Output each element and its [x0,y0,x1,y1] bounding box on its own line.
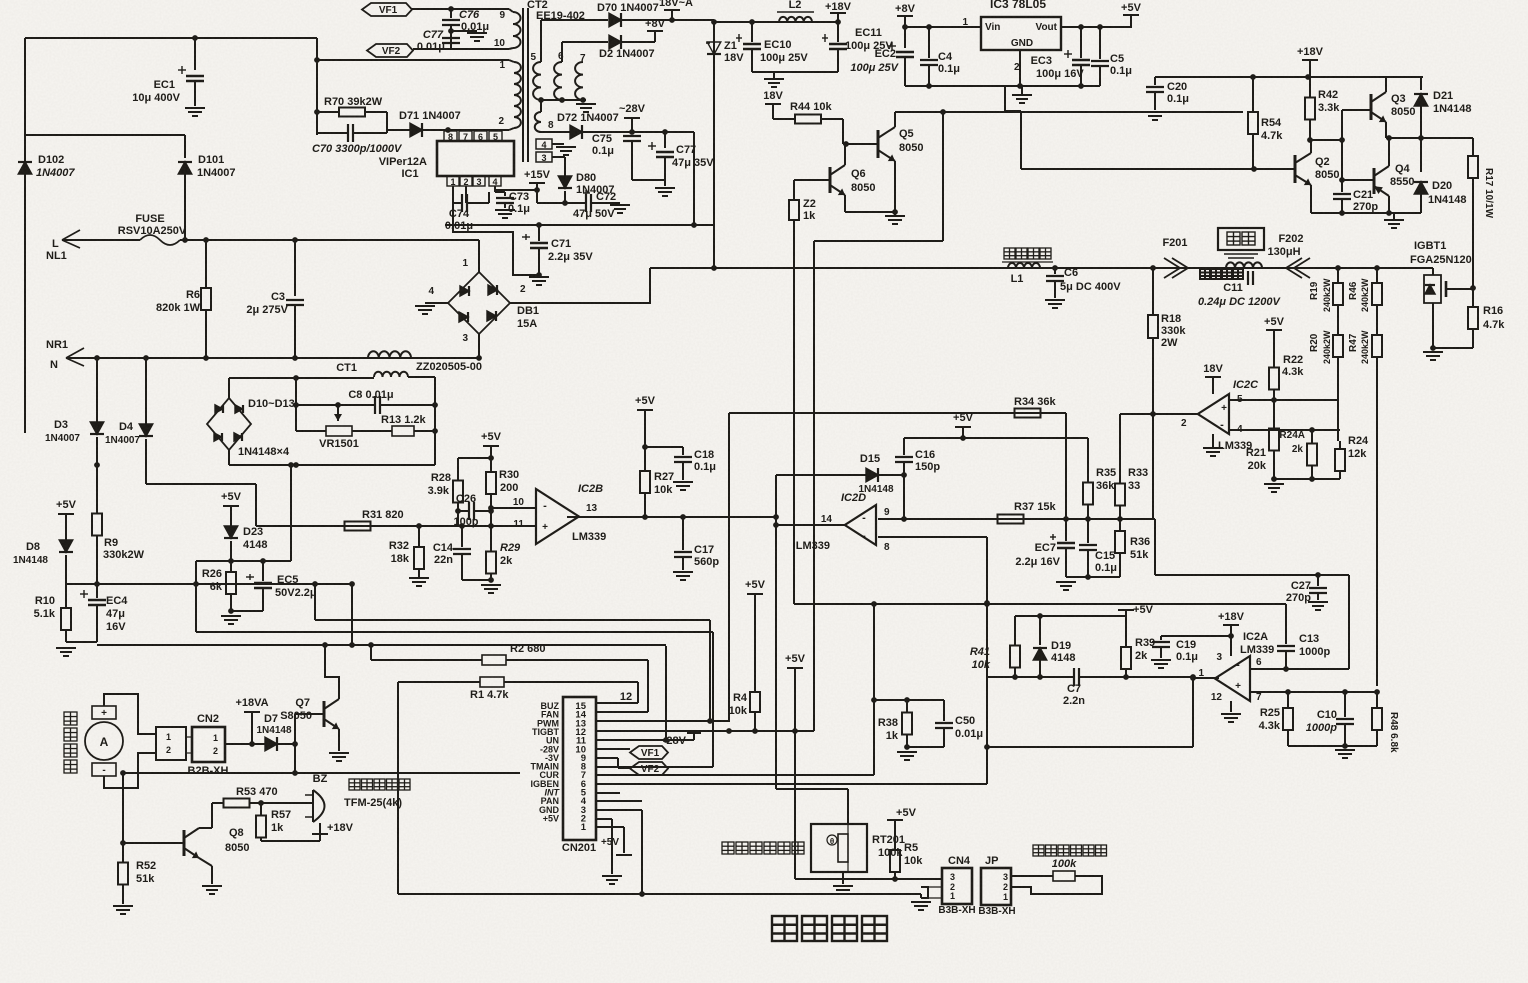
ground R29 [481,584,501,586]
wire pin13 PWM [596,720,729,722]
net pill VF2 bottom [630,762,668,775]
wire pin9 to VF2 [596,757,618,759]
wire IC1 pin2 down [465,186,467,203]
capacitor C13 [1285,604,1287,644]
wire R38/C50 top rail [907,699,944,701]
wire ~28V drop [693,132,695,226]
wire x352 down [351,584,353,646]
ground R10/EC4 [56,647,76,649]
CT2 winding 5 [533,62,541,100]
wire pin9 node y519 [878,518,1155,520]
ground C72 [610,204,630,206]
wire main HV line y268 [650,267,1433,269]
capacitor C77b [664,132,666,148]
wire Q8 emitter [199,858,212,866]
wire x987 down [986,537,988,784]
wire bridge bottom [228,450,230,465]
wire R34 line y413 [729,412,1066,414]
wire to Q7 base [294,714,296,744]
diode D70 [540,20,542,62]
wire D2 from winding 6 [561,42,563,62]
resistor R6 [205,240,207,288]
wire C19 to +18V pin3 [1161,635,1231,637]
capacitor C50 [943,700,945,721]
resistor R37 [955,518,998,520]
wire VF1 to CT2 pin9 [412,8,509,10]
resistor R46 [1376,268,1378,283]
connector CN2 left half [156,727,186,760]
wire C76/C77 mid to gnd [451,30,477,32]
wire Q8 collector [199,827,212,829]
wire R5 rail [795,878,942,880]
wire x814 long vertical [813,241,815,731]
wire left border vertical [24,38,26,433]
wire D4 to stair [146,483,256,485]
diode D20 [1420,138,1422,172]
diode D72 [541,131,570,133]
wire D101/D102 top [25,134,185,136]
wire R16 bottom [1433,347,1473,349]
resistor R24A [1311,430,1313,444]
ground EC10 [764,78,784,80]
wire Q3 emitter down [1385,122,1387,138]
capacitor EC7 [1065,519,1067,541]
transistor Q3 [1370,94,1373,120]
fan motor 风扇电机 [64,712,77,725]
diode D3 [96,358,98,422]
wire Q4 collector up [1388,138,1390,166]
mains L / NL1 arrow [62,230,80,248]
wire stair y620 [315,619,710,621]
capacitor C70 [317,132,348,134]
resistor R2 [371,659,482,661]
wire drop to IC2A pin6 [1348,575,1350,669]
resistor R22 [1273,357,1275,368]
ground R32 [409,577,429,579]
wire +18V rail y77 [1155,76,1423,78]
wire EC10/EC11 bottom [752,71,838,73]
resistor R24 [1339,441,1341,449]
capacitor C7 [1073,668,1075,686]
wire bottom bus y894 [398,893,921,895]
ground C6 [1045,299,1065,301]
capacitor C19 [1160,636,1162,640]
wire Q4 emitter down [1388,196,1390,213]
wire CN2 pin1 out [225,743,266,745]
diode D102 [24,135,26,158]
ground C71 [529,276,549,278]
wire pin3 [552,156,565,158]
wire x371 drop [370,645,372,660]
wire pin3 PAN [596,809,642,811]
wire 5/6/7 commons [541,99,586,101]
resistor R53 [212,802,224,804]
wire x729 long vertical [728,413,730,722]
wire DB1 AC top [478,240,480,272]
diode D8 [59,540,73,552]
ground R38 [897,751,917,753]
wire C74 right up [488,192,490,203]
wire pin4 to gnd [552,143,564,145]
wire x196 down [195,561,197,632]
ground Q8 [202,885,222,887]
choke label [1004,248,1015,259]
wire R70 right [386,112,388,133]
ground CN4 [911,901,931,903]
ground C73 [495,209,515,211]
resistor R41 [1014,616,1016,636]
CT2 pin3 box [536,152,552,162]
ground C18 [673,481,693,483]
wire R21/R24 bottoms [1274,478,1340,480]
capacitor C11 [1247,271,1249,285]
capacitor C10 [1344,692,1346,717]
ground R26 [221,615,241,617]
inductor L1 [1008,263,1040,268]
wire pin2 GND [596,818,612,820]
wire over to x814 [814,240,943,242]
diode D7 [265,737,277,751]
wire DB1 pin4 [425,302,448,304]
capacitor EC3 [1080,27,1082,58]
wire rail y225 [445,224,714,226]
transistor Q8 [183,830,186,856]
capacitor EC11 [835,19,841,25]
CT2 winding 7 [575,62,583,100]
wire to Q3/Q4 bases [1341,140,1343,180]
capacitor C20 [1154,77,1156,85]
ground C77b [655,187,675,189]
CT2 winding 6 [554,62,562,100]
CT1 secondary [374,372,408,377]
pan box 锅具 [1218,228,1264,250]
ground CT2 secondary [576,103,596,105]
wire R42 node [1310,139,1342,141]
wire IGBT collector [1432,268,1434,275]
resistor R42 [1309,77,1311,98]
wire L line [180,239,479,241]
capacitor C4 [928,27,930,58]
connector F202 arrows [1286,258,1310,278]
resistor R13 [392,426,414,436]
wire signal to R31/IC2B [256,525,536,527]
wire motor + lead [104,694,156,734]
wire IGBT emitter down [1432,303,1434,348]
connector F201 arrows [1164,258,1188,278]
wire Q6 base [794,179,830,181]
op-amp IC2D LM339 [845,505,876,545]
bridge rectifier DB1 15A [448,272,510,334]
wire N line [66,357,479,359]
wire to D10 bridge top [228,378,230,398]
wire IC3 pin2 down [1019,50,1021,86]
wire emitters [845,211,895,213]
diode D101 [184,135,186,158]
ground CN201 pin2 [602,875,622,877]
transformer CT1 [368,351,411,358]
IC U2 IC3 78L05 [981,17,1061,50]
-28V tick [687,739,694,741]
ground C76 [467,32,487,34]
wire IC2D pin8 out [878,536,987,538]
inductor L2 [779,17,812,22]
wire R38/C50 bottom [907,746,944,748]
ground C10 [1335,749,1355,751]
wire trunk to main line [713,225,715,268]
wire to Q5 base [843,143,878,145]
wire R24 top [1337,398,1339,441]
wire C75 to C77 bottom [632,179,665,181]
resistor R26 [230,561,232,572]
resistor R48 [1376,692,1378,708]
capacitor EC4 [96,584,98,598]
wire ground route to C71 [453,225,539,275]
wire bottom rail y746 [1288,745,1377,747]
wire to rail y226 [452,203,454,226]
diode D23 [224,526,238,538]
VR wiper [337,405,339,421]
wire to buzzer [261,802,313,804]
wire x714 down [712,632,714,767]
wire IC1 pin1 down [452,186,454,203]
diode D15 [776,474,866,476]
wire JP pin3 out [1011,875,1053,877]
wire pin1 +5V [596,826,624,828]
wire IC2C out to pin6 drop [1155,574,1349,576]
capacitor C74 [453,202,462,204]
wire Q2 emitter down [1310,185,1312,213]
capacitor C16 [903,438,905,455]
resistor R54 [1252,77,1254,112]
wire pan sensor loop [1011,876,1102,894]
wire IC3 gnd rail [905,85,1100,87]
label 装在散热器上 [722,842,734,854]
diode D19 [1039,616,1041,645]
wire 18V collector rail [895,111,1243,113]
wire D19 bottom rail right [1079,676,1193,678]
CT2 pin4 box [536,139,552,149]
wire x874 down [873,604,875,775]
wire +5V rail y616 [1015,615,1126,617]
connector CN201 [563,697,596,840]
resistor R39 [1125,616,1127,639]
wire CN4 pins 2-1 loop [921,887,928,898]
diode D71 [387,129,410,131]
resistor R17 [1472,138,1474,156]
wire R2 stair down [647,660,649,712]
wire EC4/R10 bottom [66,641,97,643]
op-amp IC2B LM339 [536,489,579,544]
wire Q5 emitter down [894,161,896,212]
wire D19 bottom rail left [988,676,1074,678]
IC1 pins 1 2 3 4 [447,176,459,186]
resistor R36 [1119,519,1121,531]
diode D21 [1420,77,1422,90]
wire Q3 base [1342,109,1371,111]
capacitor C15 [1087,519,1089,543]
transistor Q4 (PNP) [1373,168,1376,194]
bridge D10~D13 1N4148x4 [207,398,251,450]
wire motor - lead [104,753,156,788]
ground C20 [1145,111,1165,113]
wire +8V to IC3 [905,26,981,28]
wire Q7 emitter down [338,729,340,751]
wire down from Q5 rail [942,112,944,241]
connector CN2 B2B-XH [192,727,225,762]
+5V tick D19 [1125,610,1127,616]
wire R47 bottom long drop [1376,372,1378,686]
CT2 winding 9-10 [513,12,521,48]
resistor R44 [773,118,795,120]
wire Q8 base [123,842,184,844]
ground R52 [113,905,133,907]
diode D80 [558,176,572,188]
wire pin5 stub [596,792,620,794]
wire R70 column [316,60,318,135]
ground CT2 pin4 [556,146,576,148]
IGBT gate bar [1445,281,1448,297]
IC U1 VIPer12A IC1 [437,141,514,176]
capacitor C3 [294,240,296,296]
capacitor EC10 [751,22,753,42]
resistor R5 [894,843,896,850]
capacitor C27 [1317,575,1319,586]
wire CT1 sec right [408,376,435,378]
wire pin8 TMAIN [596,766,713,768]
transistor Q7 S8050 [323,701,326,727]
wire output bus y604 [794,603,1286,605]
wire pin10 to VF1 [596,748,630,750]
resistor R57 [260,803,262,812]
ground R21 [1264,483,1284,485]
wire FAN net y773 [123,772,520,774]
wire Q5 collector up [894,112,896,127]
resistor R38 [874,699,907,701]
wire IC2A output pin1 [1193,677,1219,679]
wire R57 to +18V [261,840,320,842]
wire x776 long vertical [775,517,777,789]
wire stair y645 [97,644,666,646]
wire Z1 trunk [713,20,715,225]
net label VF2 [367,44,413,57]
wire emitter bus y213 [1311,212,1421,214]
capacitor EC2 [904,27,906,48]
ground Q4 emitter [1384,219,1404,221]
wire +5V rail y438 [904,437,1088,439]
wire top 18V rail [714,21,838,23]
wire Q6 collector up [844,144,846,165]
wire IC2C output pin2 [1120,413,1198,415]
connector JP B3B-XH [981,868,1011,905]
wire x794 long vertical [793,222,795,604]
resistor R28 [457,458,459,472]
wire meas box right [434,377,436,465]
wire R18 col to y575 [1154,519,1156,575]
wire stair y632 [196,631,713,633]
resistor R32 [418,526,420,540]
wire to C18 [645,446,683,448]
wire up to Q3 base [1341,110,1343,140]
capacitor C71 [538,225,540,241]
ground Q5/Q6 [885,215,905,217]
resistor R27 [644,447,646,471]
resistor R10 [65,584,67,596]
resistor R31 [296,525,344,527]
wire to CT2 pin1 [317,59,509,61]
ground C17 [673,571,693,573]
ground C19 [1151,659,1171,661]
wire bridge out down [290,465,292,561]
wire x398 long down [397,682,399,894]
diode D4 [145,358,147,424]
wire x315 drop [314,584,316,620]
resistor R29 [490,511,492,545]
resistor R18 [1152,268,1154,315]
resistor R16 [1472,288,1474,307]
resistor R20 [1337,320,1339,335]
wire driver output node [1386,137,1473,139]
CT2 winding 8 [535,112,541,132]
wire y561 node [196,560,291,562]
wire to pin15 [596,702,638,704]
wire pin1 down [1192,678,1194,747]
wire pin10 into IC2B [491,507,536,509]
wire x795 down to CN4 rail [794,731,796,879]
resistor R1 [398,681,480,683]
fuse FUSE RSV10A250V [62,239,140,241]
net pill VF1 bottom [630,746,668,759]
wire meas box left [295,378,297,431]
capacitor C21 [1341,180,1343,192]
wire sense node y584 [66,583,352,585]
wire Vout to +5V [1061,26,1132,28]
wire R26/EC5 bottom [231,610,263,612]
wire VF2 drop [316,38,318,60]
ground IGBT emitter [1423,351,1443,353]
wire pin7 [1250,691,1377,693]
wire pin4 rail [1229,429,1340,431]
capacitor C17 [682,517,684,550]
resistor R47 [1376,320,1378,335]
wire IC2B output y517 [567,516,776,518]
potentiometer VR1501 [296,430,326,432]
wire Q4 base [1342,179,1374,181]
wire stair down [255,484,257,526]
op-amp IC2C LM339 [1198,394,1229,434]
wire R44 down [842,119,844,144]
wire to pin14 [596,711,648,713]
resistor 100k pan sensor [1053,871,1075,881]
wire EC7/C15/R36 bottoms [1066,576,1120,578]
wire VF2 to CT2 pin10 [413,48,509,50]
pan thermistor 炉面热敏电阻 [1033,845,1044,856]
ground DB1 [415,305,435,307]
capacitor C8 [296,404,375,406]
wire pin12 TIGBT [596,730,814,732]
resistor R9 [94,462,100,468]
wire pin12 down [1230,701,1232,712]
ground C27 [1308,601,1328,603]
heating coil 发热线圈 [1226,262,1262,268]
wire pin4 to +15V [495,189,537,191]
resistor R19 [1337,268,1339,283]
ground Q7 [329,752,349,754]
capacitor C72 [585,194,587,212]
ground IC2C [1203,447,1223,449]
capacitor C73 [494,186,496,192]
capacitor C77a [442,37,460,39]
wire buzzer to +18V [319,823,321,834]
